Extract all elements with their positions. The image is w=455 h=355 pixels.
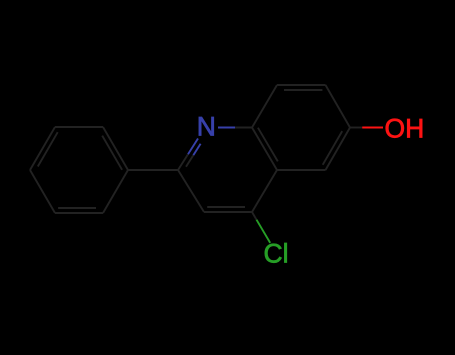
C7=C8 double bond <box>277 85 326 90</box>
C4a–C5 bond <box>277 169 326 171</box>
C6–O bond to hydroxyl <box>350 127 383 129</box>
C4–C4a bond <box>252 170 277 212</box>
phenyl C6'–C1' bond <box>103 170 128 213</box>
phenyl C2'–C3' bond <box>55 126 103 128</box>
phenyl C5'=C6' double bond <box>55 208 103 213</box>
phenyl C4'–C5' bond <box>30 170 55 213</box>
C6–C7 bond <box>326 85 351 128</box>
C4a=C8a fused double bond <box>252 128 278 171</box>
C5=C6 double bond <box>323 128 350 171</box>
C4–Cl bond <box>252 212 270 243</box>
C2–C3 bond <box>178 170 204 212</box>
svg-text:OH: OH <box>385 114 425 144</box>
phenyl C3'=C4' double bond <box>30 127 58 170</box>
C3=C4 double bond <box>204 207 252 212</box>
svg-text:N: N <box>197 112 216 142</box>
phenyl C1'=C2' double bond <box>102 127 128 170</box>
N1–C8a bond <box>218 127 252 129</box>
C8–C8a bond <box>252 85 277 128</box>
C2–C1' phenyl link bond <box>128 169 178 171</box>
N1=C2 double bond <box>178 139 201 171</box>
svg-text:Cl: Cl <box>264 239 289 269</box>
